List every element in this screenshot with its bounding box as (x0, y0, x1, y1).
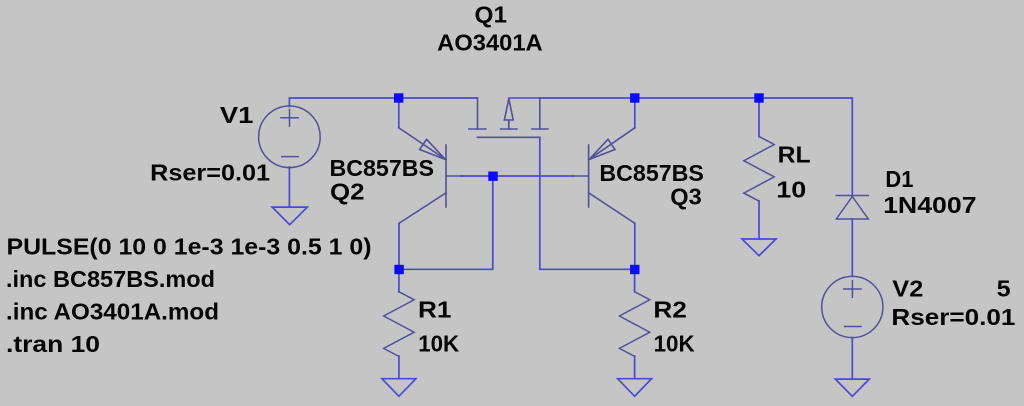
svg-text:D1: D1 (885, 166, 913, 192)
svg-text:.tran 10: .tran 10 (6, 331, 100, 357)
Q3 base bar (588, 145, 590, 207)
svg-text:R1: R1 (418, 297, 452, 323)
svg-text:10K: 10K (418, 331, 459, 357)
svg-text:1N4007: 1N4007 (883, 192, 977, 218)
wire Q2 collector down (398, 223, 400, 269)
svg-text:Q3: Q3 (670, 184, 702, 210)
wire base node down-left to R1 top (399, 176, 493, 269)
Q1 body stub (508, 120, 510, 129)
resistor RL leads (758, 98, 760, 137)
Q1 channel bar middle (501, 128, 517, 130)
svg-text:10: 10 (776, 176, 806, 202)
wire top rail right: Q1 source to corner, down to D1 (540, 98, 853, 196)
wire Q1 gate down to R2 top (540, 137, 635, 269)
Q1 gate line (477, 136, 539, 138)
Q2 emitter arrow (420, 139, 446, 159)
Q3 emitter arrow (589, 139, 615, 159)
resistor R1 leads (398, 269, 400, 292)
svg-text:Rser=0.01: Rser=0.01 (150, 160, 270, 186)
svg-text:Q1: Q1 (475, 1, 508, 27)
Q1 body arrow (504, 99, 513, 120)
junction node R2 top (630, 265, 639, 274)
Q2 base bar (445, 145, 447, 207)
svg-text:.inc AO3401A.mod: .inc AO3401A.mod (6, 299, 219, 325)
junction node Q3 emitter (630, 93, 639, 102)
pnp transistor Q2 (399, 128, 462, 224)
Q3 emitter diagonal (589, 128, 635, 160)
wire Q2 emitter stub (398, 98, 400, 128)
pmos transistor Q1 (469, 98, 548, 137)
svg-text:R2: R2 (653, 297, 687, 323)
svg-text:.inc BC857BS.mod: .inc BC857BS.mod (6, 266, 215, 292)
resistor R2 leads (634, 269, 636, 292)
ground below RL (742, 239, 776, 256)
junction node RL top (754, 93, 763, 102)
svg-text:Q2: Q2 (330, 178, 365, 204)
ground below V2 (835, 379, 869, 396)
Q1 source top line (509, 97, 540, 99)
ground below V1 (272, 207, 307, 225)
diode D1 (836, 196, 868, 220)
svg-text:RL: RL (778, 141, 811, 167)
junction node V1/Q2 emitter (394, 93, 403, 102)
Q1 drain stub (477, 98, 479, 129)
Q3 collector diagonal (589, 193, 635, 224)
voltage source V2 (822, 276, 883, 337)
wire Q3 emitter stub (634, 98, 636, 128)
Q2 base lead (446, 175, 462, 177)
wire D1 bottom to V2 (851, 219, 853, 276)
junction node bases (488, 172, 497, 181)
ground below R2 (618, 379, 652, 397)
svg-text:V1: V1 (220, 102, 254, 128)
svg-text:10K: 10K (654, 331, 695, 357)
ground below R1 (382, 379, 416, 397)
svg-text:V2: V2 (892, 275, 923, 301)
Q2 emitter diagonal (399, 128, 446, 160)
wire Q3 collector down (634, 223, 636, 269)
svg-text:BC857BS: BC857BS (599, 160, 704, 186)
resistor R1 zigzag (384, 292, 414, 357)
svg-text:Rser=0.01: Rser=0.01 (891, 304, 1015, 330)
Q1 source stub (539, 98, 541, 129)
voltage source V1 (259, 106, 321, 168)
pnp transistor Q3 (573, 128, 635, 224)
Q1 channel bar left (469, 128, 486, 130)
Q1 channel bar right (532, 128, 548, 130)
wire V2 bottom lead (851, 338, 853, 379)
resistor RL zigzag (744, 136, 774, 201)
svg-text:5: 5 (997, 275, 1011, 301)
wire top rail left: V1 to Q1 drain (289, 98, 477, 107)
svg-text:BC857BS: BC857BS (330, 155, 435, 181)
svg-text:PULSE(0 10 0 1e-3 1e-3 0.5 1 0: PULSE(0 10 0 1e-3 1e-3 0.5 1 0) (7, 234, 372, 260)
resistor R2 zigzag (619, 292, 649, 357)
wire base Q2 to Q3 (461, 175, 574, 177)
Q2 collector diagonal (399, 193, 446, 224)
svg-text:AO3401A: AO3401A (437, 30, 543, 56)
junction node R1 top (394, 265, 403, 274)
wire V1 bottom lead (288, 167, 290, 207)
Q3 base lead (573, 175, 589, 177)
